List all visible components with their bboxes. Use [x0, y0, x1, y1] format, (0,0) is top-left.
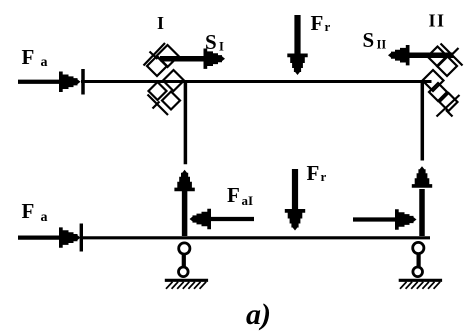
force Fr (top radial force arrow) — [287, 15, 307, 75]
force: right horizontal arrow (pointing right) — [353, 209, 417, 229]
svg-text:a: a — [41, 210, 48, 225]
force SII (reaction at bearing II) — [388, 45, 454, 65]
bearing I lower half — [148, 82, 181, 115]
force Fa (top axial force arrow) — [18, 72, 81, 92]
svg-text:S: S — [363, 28, 375, 52]
bearing II lower half — [429, 83, 460, 117]
svg-text:F: F — [227, 183, 240, 207]
svg-text:r: r — [325, 19, 331, 34]
wire: lower beam line — [81, 236, 430, 239]
wire: right drop line from shaft to lower scheme — [421, 83, 425, 161]
svg-text:a: a — [41, 55, 48, 70]
svg-text:II: II — [429, 11, 446, 31]
bearing I middle diamond straddling shaft — [163, 70, 184, 91]
node: top shaft left end tick — [81, 69, 85, 95]
force: left support reaction (up arrow) — [174, 170, 194, 236]
wire: top shaft line — [81, 80, 432, 83]
svg-text:I: I — [219, 40, 224, 54]
force: right support reaction (up arrow) — [412, 166, 432, 236]
ground under right support — [399, 279, 442, 282]
force Fr (bottom radial force arrow) — [285, 169, 305, 231]
bearing II middle diamond straddling shaft — [423, 70, 444, 91]
right roller support — [413, 242, 424, 276]
svg-text:F: F — [307, 161, 320, 185]
hatching left ground — [166, 282, 206, 289]
left roller support — [179, 243, 190, 277]
svg-text:I: I — [157, 13, 164, 33]
ground under left support — [165, 279, 208, 282]
svg-text:r: r — [321, 169, 327, 184]
wire: left drop line from shaft to lower scheme — [184, 83, 188, 164]
node: lower beam left end tick — [80, 224, 83, 252]
force FaI (axial reaction arrow, pointing left) — [190, 209, 255, 229]
bearing II upper half — [428, 44, 463, 77]
bearing I upper half — [144, 43, 179, 76]
svg-text:F: F — [311, 11, 324, 35]
svg-text:S: S — [205, 30, 217, 54]
force SI (reaction at bearing I) — [160, 49, 225, 69]
svg-text:II: II — [377, 38, 387, 52]
svg-text:a): a) — [246, 298, 271, 331]
svg-text:F: F — [22, 199, 35, 223]
hatching right ground — [400, 282, 440, 289]
svg-text:aI: aI — [242, 193, 254, 208]
force Fa (bottom axial force arrow) — [18, 227, 81, 247]
svg-text:F: F — [22, 45, 35, 69]
